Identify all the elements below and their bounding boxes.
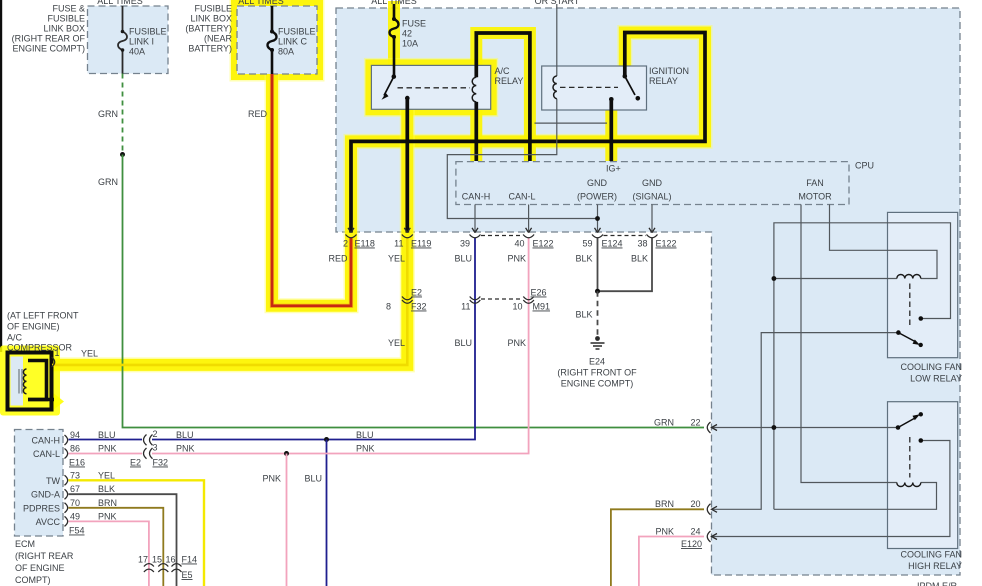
- label: cooling fan low relay caption: [900, 362, 962, 384]
- svg-text:BLK: BLK: [631, 254, 648, 264]
- svg-text:TW: TW: [46, 476, 60, 486]
- svg-text:39: 39: [460, 239, 470, 249]
- wire YEL ECM TW: [69, 480, 205, 586]
- label: fusible link box (battery) caption: [185, 4, 232, 54]
- svg-text:RELAY: RELAY: [495, 76, 524, 86]
- label: F54: [69, 526, 85, 536]
- svg-text:BLU: BLU: [98, 430, 116, 440]
- svg-text:A/C: A/C: [495, 66, 511, 76]
- ignition relay box: [542, 66, 647, 110]
- svg-text:24: 24: [690, 527, 700, 537]
- svg-text:E24: E24: [589, 357, 605, 367]
- svg-text:PNK: PNK: [98, 511, 117, 521]
- svg-text:E119: E119: [411, 239, 431, 249]
- wire BLK pin 38: [598, 238, 653, 292]
- CPU output wires to connector pins: [475, 205, 652, 232]
- wire BLK ECM GND-A to pin 16: [69, 494, 177, 586]
- label: wire colors row 2: [388, 338, 526, 348]
- label: pin 38 E122: [637, 239, 676, 249]
- wire BRN ECM PDPRES to pin 15: [69, 508, 164, 586]
- A/C relay box: [371, 65, 490, 109]
- svg-text:E118: E118: [355, 239, 375, 249]
- svg-text:BLK: BLK: [98, 484, 115, 494]
- svg-text:GRN: GRN: [98, 177, 118, 187]
- label: IG+: [606, 164, 621, 174]
- svg-text:CAN-H: CAN-H: [462, 192, 491, 202]
- wire BLU pin 39 to CAN-H: [69, 238, 476, 440]
- svg-text:22: 22: [690, 418, 700, 428]
- svg-text:GRN: GRN: [98, 109, 118, 119]
- ignition relay IG+ wire to CPU: [609, 99, 613, 161]
- svg-text:2: 2: [343, 239, 348, 249]
- label: FAN MOTOR: [798, 178, 832, 202]
- svg-text:LINK BOX: LINK BOX: [190, 14, 232, 24]
- label: GND (SIGNAL): [632, 178, 671, 202]
- ignition relay internals (coil, switch): [553, 74, 640, 102]
- label: GRN wire: [98, 109, 118, 119]
- cooling fan low relay internals (coil, switch): [896, 275, 923, 348]
- svg-text:15: 15: [152, 555, 162, 565]
- svg-text:ALL TIMES: ALL TIMES: [238, 0, 284, 6]
- svg-text:ENGINE COMPT): ENGINE COMPT): [561, 379, 634, 389]
- svg-text:40A: 40A: [129, 47, 145, 57]
- connector pin 39 E122: [470, 228, 481, 238]
- highlight glow: fusible link C box border: [237, 6, 317, 74]
- svg-text:E26: E26: [530, 288, 546, 298]
- wire RED from fusible link C to IPDM pin 2: [272, 74, 351, 306]
- svg-text:PNK: PNK: [507, 338, 526, 348]
- junction on PNK wire: [284, 451, 289, 456]
- svg-text:E2: E2: [411, 288, 422, 298]
- svg-text:(NEAR: (NEAR: [204, 34, 233, 44]
- wire BRN to IPDM pin 20: [611, 509, 704, 586]
- svg-text:COOLING FAN: COOLING FAN: [900, 362, 962, 372]
- svg-text:FUSE: FUSE: [402, 19, 426, 29]
- connector pin 22 GRN at IPDM edge: [707, 422, 717, 433]
- fuse 42 wire: [390, 4, 399, 77]
- label: BLK ground wire: [575, 310, 592, 320]
- inline connector E26/M91 on BLU and PNK wires: [470, 297, 534, 304]
- connector F14 pins 17 15 16: [144, 564, 182, 567]
- svg-text:LINK BOX: LINK BOX: [43, 24, 85, 34]
- svg-text:M91: M91: [533, 302, 551, 312]
- splice node on GRN wire: [120, 152, 125, 157]
- ECM box (dashed): [15, 430, 64, 537]
- A/C compressor pin 1 connector: [52, 357, 55, 367]
- svg-text:CAN-L: CAN-L: [33, 449, 60, 459]
- svg-text:10: 10: [512, 302, 522, 312]
- label: connector F14 pins: [138, 555, 197, 565]
- label: ALL TIMES (left): [97, 0, 143, 6]
- highlight glow: A/C relay coil wires to CPU: [476, 33, 530, 161]
- label: BRN 20: [655, 499, 701, 509]
- svg-text:PNK: PNK: [356, 444, 375, 454]
- svg-text:11: 11: [461, 302, 470, 312]
- svg-text:59: 59: [582, 239, 592, 249]
- svg-text:(SIGNAL): (SIGNAL): [632, 192, 671, 202]
- svg-text:BLU: BLU: [356, 430, 374, 440]
- svg-text:IPDM E/R: IPDM E/R: [917, 581, 958, 586]
- svg-text:E124: E124: [602, 239, 623, 249]
- connector pin 40 E122: [523, 228, 534, 238]
- label: IPDM E/R: [917, 581, 958, 586]
- svg-text:49: 49: [70, 511, 80, 521]
- svg-text:ALL TIMES: ALL TIMES: [371, 0, 417, 6]
- highlight glow: A/C compressor body: [0, 346, 64, 416]
- label: connector E5: [182, 570, 193, 580]
- wire linking IG+ feed to A/C relay coil feed: [535, 122, 608, 124]
- highlight glow: A/C relay box border: [371, 65, 490, 109]
- inline connector E2/F32 on CAN wires: [144, 435, 153, 459]
- svg-text:RED: RED: [328, 254, 348, 264]
- label: A/C relay: [495, 66, 524, 86]
- thick power wire inside IPDM: pin 2 to bus to ignition relay: [351, 33, 705, 233]
- svg-text:MOTOR: MOTOR: [798, 192, 832, 202]
- label: GRN wire 2: [98, 177, 118, 187]
- svg-text:FUSIBLE: FUSIBLE: [278, 27, 316, 37]
- svg-text:A/C: A/C: [7, 333, 23, 343]
- svg-text:E5: E5: [182, 570, 193, 580]
- svg-text:E122: E122: [533, 239, 554, 249]
- svg-text:FUSIBLE: FUSIBLE: [129, 27, 167, 37]
- svg-text:E120: E120: [681, 539, 702, 549]
- label: fusible link C: [278, 27, 316, 57]
- svg-text:94: 94: [70, 430, 80, 440]
- wire BLK dashed to ground E24: [597, 291, 599, 336]
- CPU box (dashed, inside IPDM): [456, 162, 849, 205]
- svg-text:ECM: ECM: [15, 539, 35, 549]
- svg-text:BLU: BLU: [304, 474, 322, 484]
- svg-text:GND-A: GND-A: [31, 490, 60, 500]
- ignition relay coil ground wire to GND(POWER): [447, 99, 597, 219]
- svg-text:RED: RED: [248, 109, 268, 119]
- svg-text:RELAY: RELAY: [649, 76, 678, 86]
- label: RED wire: [248, 109, 268, 119]
- fuse &amp; fusible link box (right rear of engine compt): [88, 6, 169, 74]
- fusible link C wire: [268, 6, 277, 74]
- svg-text:80A: 80A: [278, 47, 294, 57]
- svg-text:1: 1: [55, 348, 60, 358]
- label: pin 2 E118: [343, 239, 375, 249]
- IPDM internal wire: high relay coil right return to feed riser: [774, 483, 937, 510]
- svg-text:GRN: GRN: [654, 418, 674, 428]
- highlight glow: battery RED feed path through pin 2 to bus and ignition relay: [272, 1, 705, 306]
- fusible link box (battery, near battery): [237, 6, 317, 74]
- svg-text:73: 73: [70, 470, 80, 480]
- cooling fan high relay internals (coil, switch): [896, 412, 923, 486]
- cooling fan high relay box: [888, 402, 958, 549]
- svg-text:AVCC: AVCC: [36, 517, 61, 527]
- connector pin 20 BRN at IPDM edge: [707, 504, 717, 515]
- svg-text:67: 67: [70, 484, 80, 494]
- highlight glow: ignition relay IG+ output to CPU: [605, 99, 617, 161]
- svg-text:2: 2: [153, 429, 158, 439]
- label: fuse & fusible link box caption: [12, 4, 86, 54]
- svg-text:(BATTERY): (BATTERY): [185, 24, 232, 34]
- label: PNK BLU vertical branches: [262, 474, 322, 484]
- svg-text:17: 17: [138, 555, 148, 565]
- svg-text:(POWER): (POWER): [577, 192, 617, 202]
- IPDM E/R box (large L-shaped dashed enclosure): [336, 8, 960, 575]
- label: GND (POWER): [577, 178, 617, 202]
- svg-text:ENGINE COMPT): ENGINE COMPT): [12, 44, 85, 54]
- wire GRN (dashed splice section): [122, 74, 124, 155]
- svg-text:OF ENGINE): OF ENGINE): [7, 322, 60, 332]
- svg-text:E2: E2: [130, 458, 141, 468]
- svg-text:FAN: FAN: [806, 178, 824, 188]
- svg-text:(RIGHT REAR: (RIGHT REAR: [15, 551, 74, 561]
- svg-text:IGNITION: IGNITION: [649, 66, 689, 76]
- dashed connector link pins 59-38: [604, 235, 647, 237]
- wire BLU branch to bottom: [326, 440, 328, 586]
- svg-text:PNK: PNK: [176, 444, 195, 454]
- svg-text:BLU: BLU: [454, 338, 472, 348]
- svg-text:20: 20: [690, 499, 700, 509]
- ignition switch feed wire (OR START): [556, 4, 558, 76]
- label: ECM pin numbers: [70, 430, 80, 521]
- wire PNK to IPDM pin 24: [639, 537, 704, 586]
- svg-text:(RIGHT REAR OF: (RIGHT REAR OF: [12, 34, 86, 44]
- connector E5: [144, 569, 182, 572]
- label: pin 59 E124: [582, 239, 622, 249]
- junction of BLK ground wires: [595, 289, 600, 294]
- svg-text:11: 11: [394, 239, 403, 249]
- svg-text:LINK C: LINK C: [278, 37, 308, 47]
- svg-text:8: 8: [386, 302, 391, 312]
- svg-text:E122: E122: [656, 239, 677, 249]
- svg-text:CAN-L: CAN-L: [508, 192, 535, 202]
- ECM pin connectors: [65, 435, 68, 526]
- A/C relay internals (switch, coil): [382, 74, 477, 102]
- label: ECM wire colors: [98, 430, 117, 521]
- svg-text:42: 42: [402, 29, 412, 39]
- label: CPU: [855, 161, 874, 171]
- svg-text:FUSE &: FUSE &: [52, 4, 85, 14]
- fusible link I wire: [118, 6, 127, 74]
- connector pin 38 E122: [647, 228, 658, 238]
- label: YEL compressor wire: [81, 349, 98, 359]
- A/C compressor body symbol: [8, 353, 55, 410]
- svg-text:FUSIBLE: FUSIBLE: [47, 14, 85, 24]
- label: ALL TIMES (battery box): [238, 0, 284, 6]
- svg-text:BLU: BLU: [454, 254, 472, 264]
- label: ALL TIMES (fuse 42): [371, 0, 417, 6]
- label: BLU PNK after connector: [176, 430, 195, 454]
- svg-text:(RIGHT FRONT OF: (RIGHT FRONT OF: [557, 368, 637, 378]
- label: inline connector E2 / 8 F32: [386, 288, 427, 312]
- svg-text:70: 70: [70, 498, 80, 508]
- label: fusible link I: [129, 27, 167, 57]
- svg-text:PNK: PNK: [98, 444, 117, 454]
- label: ignition relay: [649, 66, 689, 86]
- svg-text:BRN: BRN: [98, 498, 117, 508]
- ground symbol E24: [591, 336, 605, 349]
- connector pin 59 E124: [592, 228, 603, 238]
- label: BLU PNK after junction: [356, 430, 375, 454]
- label: pin 40 E122: [514, 239, 553, 249]
- wire YEL pin 11 to A/C compressor: [52, 238, 407, 365]
- wire PNK pin 40 to CAN-L: [69, 238, 529, 454]
- label: fuse 42 10A: [402, 19, 426, 49]
- svg-text:COMPRESSOR: COMPRESSOR: [7, 343, 73, 353]
- svg-text:PNK: PNK: [262, 474, 281, 484]
- label: OR START: [535, 0, 580, 6]
- svg-text:16: 16: [165, 555, 175, 565]
- svg-text:BRN: BRN: [655, 499, 674, 509]
- highlight glow: fuse 42 feed wire: [388, 1, 400, 77]
- IPDM internal wire: PNK output from high relay contact: [713, 441, 950, 537]
- inline connector E2/F32 on YEL wire: [402, 297, 413, 304]
- IPDM internal wire: low relay coil left feed: [774, 278, 897, 280]
- label: cooling fan high relay caption: [900, 550, 962, 572]
- page edge bar (left margin artifact): [0, 0, 2, 352]
- junction on feed riser at low relay coil: [772, 276, 777, 281]
- connector pin 24 PNK at IPDM edge: [707, 531, 717, 542]
- svg-text:BATTERY): BATTERY): [188, 44, 232, 54]
- svg-text:BLK: BLK: [575, 310, 592, 320]
- svg-text:86: 86: [70, 444, 80, 454]
- cooling fan low relay box: [888, 212, 958, 357]
- svg-text:ALL TIMES: ALL TIMES: [97, 0, 143, 6]
- svg-text:E16: E16: [69, 458, 85, 468]
- IPDM internal wire: feed riser to low relay contact: [774, 223, 951, 510]
- label: CAN-L CPU: [508, 192, 535, 202]
- svg-text:FUSIBLE: FUSIBLE: [194, 4, 232, 14]
- IPDM internal wire: GRN feed to high relay common: [713, 427, 898, 429]
- label: inline connector 11 / E26 / 10 M91: [461, 288, 550, 312]
- wire BLK pin 59: [597, 238, 599, 292]
- svg-text:OF ENGINE: OF ENGINE: [15, 563, 65, 573]
- svg-text:IG+: IG+: [606, 164, 621, 174]
- junction: ignition coil ground to GND(POWER): [595, 216, 600, 221]
- svg-text:OR START: OR START: [535, 0, 580, 6]
- svg-text:3: 3: [153, 443, 158, 453]
- label: ECM caption: [15, 539, 74, 585]
- svg-text:BLK: BLK: [575, 254, 592, 264]
- svg-text:F32: F32: [153, 458, 169, 468]
- svg-text:COMPT): COMPT): [15, 575, 51, 585]
- svg-text:40: 40: [514, 239, 524, 249]
- svg-text:PNK: PNK: [507, 254, 526, 264]
- svg-text:BLU: BLU: [176, 430, 194, 440]
- svg-text:YEL: YEL: [388, 338, 405, 348]
- svg-text:GND: GND: [642, 178, 663, 188]
- label: CAN-H CPU: [462, 192, 491, 202]
- label: A/C compressor caption: [7, 311, 79, 353]
- svg-text:10A: 10A: [402, 39, 418, 49]
- connector pin 11 E119: [402, 228, 413, 238]
- IPDM internal wire: CPU fan motor to high relay coil left: [801, 205, 897, 483]
- svg-text:CPU: CPU: [855, 161, 874, 171]
- highlight glow: A/C relay output, pin 11, YEL wire to compressor: [52, 98, 407, 365]
- label: pin 11 E119: [394, 239, 431, 249]
- svg-text:F32: F32: [411, 302, 427, 312]
- label: wire colors row 1: [328, 254, 648, 264]
- svg-text:HIGH RELAY: HIGH RELAY: [908, 561, 962, 571]
- svg-text:COOLING FAN: COOLING FAN: [900, 550, 962, 560]
- junction on BLU wire: [324, 437, 329, 442]
- svg-text:LOW RELAY: LOW RELAY: [910, 374, 962, 384]
- svg-text:(AT LEFT FRONT: (AT LEFT FRONT: [7, 311, 79, 321]
- svg-text:LINK I: LINK I: [129, 37, 154, 47]
- IPDM internal wire: low relay coil right to CPU fan motor: [830, 205, 938, 279]
- IPDM internal wire: BRN output from low relay common: [713, 333, 898, 510]
- svg-text:CAN-H: CAN-H: [32, 436, 61, 446]
- label: pin 39: [460, 239, 470, 249]
- svg-text:F14: F14: [182, 555, 198, 565]
- wire GRN solid to IPDM pin 22: [123, 155, 705, 428]
- A/C relay coil wires to CPU: [476, 33, 530, 161]
- svg-text:YEL: YEL: [388, 254, 405, 264]
- label: GRN 22: [654, 418, 701, 428]
- svg-text:YEL: YEL: [81, 349, 98, 359]
- label: PNK 24 E120: [655, 527, 702, 550]
- A/C relay output wire to pin 11: [405, 98, 409, 233]
- svg-text:38: 38: [637, 239, 647, 249]
- wire PNK ECM AVCC to pin 17: [69, 521, 149, 586]
- label: inline CAN connector pins 2 3 E2 F32: [130, 429, 168, 468]
- junction on feed riser at GRN wire: [772, 425, 777, 430]
- label: ground E24 caption: [557, 357, 637, 389]
- svg-text:PDPRES: PDPRES: [23, 503, 60, 513]
- dashed connector link pins 39-40: [481, 235, 523, 237]
- label: ECM pin names: [23, 436, 61, 527]
- label: compressor pin 1: [55, 348, 60, 358]
- svg-text:GND: GND: [587, 178, 608, 188]
- label: E16: [69, 458, 85, 468]
- connector pin 2 E118: [346, 228, 357, 238]
- svg-text:F54: F54: [69, 526, 85, 536]
- svg-text:YEL: YEL: [98, 470, 115, 480]
- svg-text:PNK: PNK: [655, 527, 674, 537]
- wire PNK branch to bottom: [286, 454, 288, 586]
